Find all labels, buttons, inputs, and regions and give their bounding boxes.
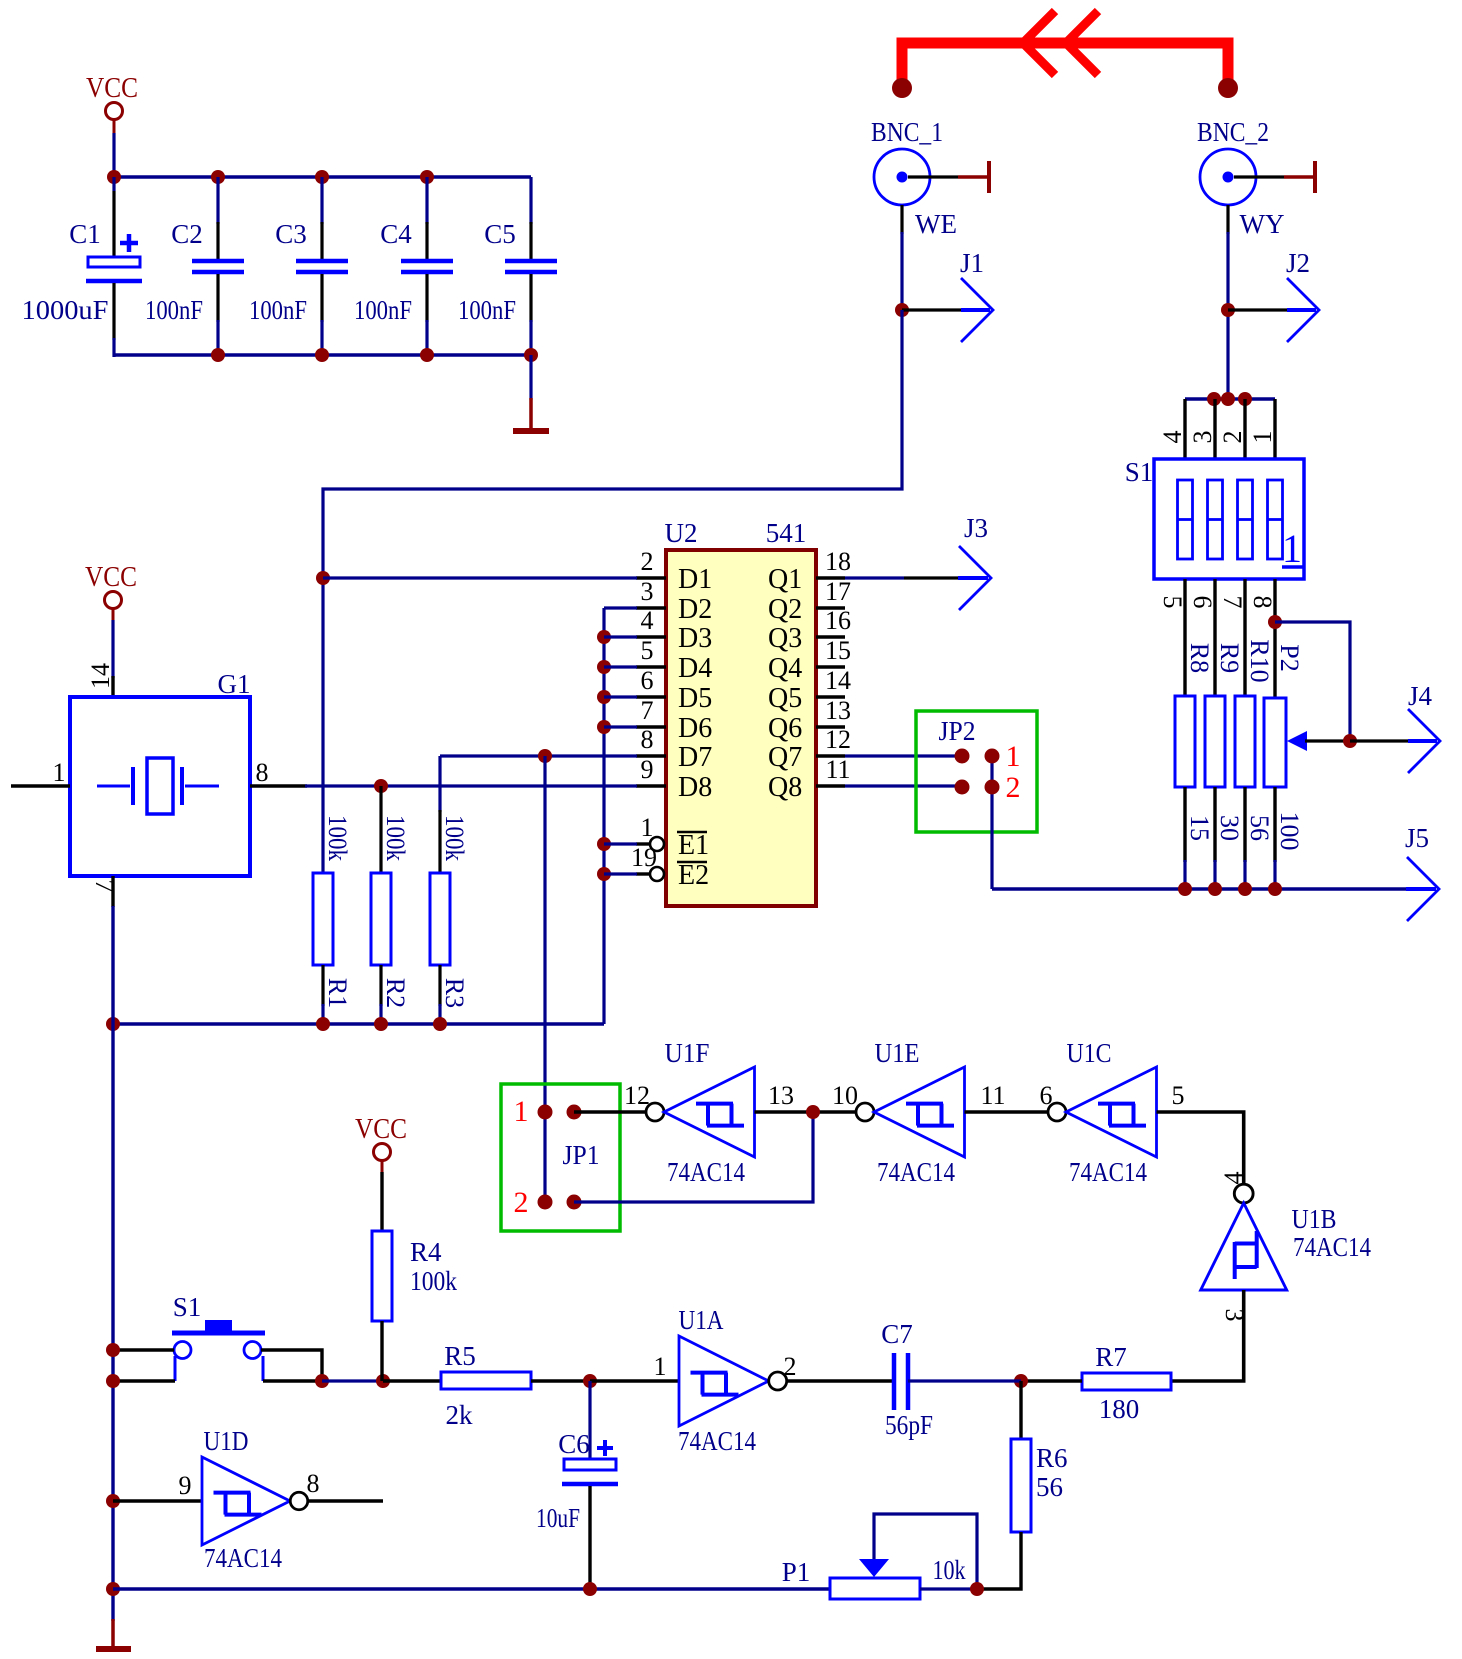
wire R3 bottom lead xyxy=(438,965,441,1024)
U2 pin 7 stub (D6) xyxy=(636,725,666,728)
pin name E1 with overline xyxy=(677,830,709,861)
wire U1C input (pin5) to U1B xyxy=(1157,1112,1244,1184)
svg-text:Q7: Q7 xyxy=(768,742,802,773)
svg-text:C3: C3 xyxy=(275,219,307,249)
BNC_1 shield terminal xyxy=(908,161,989,193)
wire resistor bottom x=1275 xyxy=(1273,787,1276,890)
wire C6 bottom lead xyxy=(588,1486,591,1589)
svg-text:P1: P1 xyxy=(782,1557,811,1587)
svg-text:BNC_2: BNC_2 xyxy=(1197,117,1269,147)
wire D5 net xyxy=(604,695,637,698)
wire U1F input (pin13) xyxy=(755,1110,857,1113)
resistor R1 xyxy=(313,873,333,965)
port J2 xyxy=(1221,248,1319,342)
wire U1E input (pin11) xyxy=(965,1110,1049,1113)
resistor R3 xyxy=(430,873,450,965)
junction dot wiper/J4 xyxy=(1343,734,1357,748)
svg-text:D2: D2 xyxy=(678,594,712,625)
wire R4 bottom lead xyxy=(380,1321,383,1381)
svg-text:5: 5 xyxy=(641,636,654,665)
svg-text:U1F: U1F xyxy=(665,1038,710,1068)
capacitor C1 xyxy=(86,257,142,281)
wire resistor bottom x=1215 xyxy=(1213,787,1216,890)
svg-text:U1D: U1D xyxy=(204,1426,249,1456)
svg-text:13: 13 xyxy=(825,696,851,725)
svg-text:C4: C4 xyxy=(380,219,412,249)
svg-text:8: 8 xyxy=(256,758,269,787)
svg-text:1: 1 xyxy=(1282,526,1302,571)
svg-text:74AC14: 74AC14 xyxy=(204,1543,282,1573)
wire E1 net xyxy=(604,842,637,845)
switch S1 element 3 xyxy=(1238,480,1253,559)
wire top VCC rail xyxy=(112,175,531,179)
wire D7 net xyxy=(440,754,637,757)
pushbutton S1 xyxy=(172,1320,265,1381)
svg-text:G1: G1 xyxy=(218,669,251,699)
wire D2 net xyxy=(604,606,637,609)
capacitor C3 xyxy=(296,261,348,272)
svg-text:7: 7 xyxy=(641,696,654,725)
wire resistor bottom x=1245 xyxy=(1243,787,1246,890)
junction dots GND riser xyxy=(597,630,611,881)
svg-text:R2: R2 xyxy=(381,978,410,1008)
wire C3 top lead xyxy=(320,177,323,259)
U2 pin 9 stub (D8) xyxy=(636,784,666,787)
switch S1 element 1 xyxy=(1178,480,1193,559)
svg-text:16: 16 xyxy=(825,606,851,635)
resistor R6 xyxy=(1011,1439,1031,1532)
wire R1 bottom lead xyxy=(321,965,324,1024)
junction dots at S1 left xyxy=(106,1343,120,1388)
svg-text:Q5: Q5 xyxy=(768,683,802,714)
svg-text:J3: J3 xyxy=(964,513,988,543)
svg-text:J4: J4 xyxy=(1408,681,1433,711)
svg-text:74AC14: 74AC14 xyxy=(1069,1157,1147,1187)
wire S1 bottom pin 5 xyxy=(1183,579,1186,697)
wire VCC to G1 pin14 xyxy=(111,620,114,697)
oscillator G1 body xyxy=(70,697,250,876)
svg-text:U1E: U1E xyxy=(875,1038,920,1068)
svg-text:10k: 10k xyxy=(933,1555,966,1585)
svg-text:U1C: U1C xyxy=(1067,1038,1112,1068)
wire left GND trunk xyxy=(111,906,114,1621)
svg-text:D3: D3 xyxy=(678,623,712,654)
U2 pin 15 stub (Q4) xyxy=(816,665,845,668)
wire R7 to C7 node xyxy=(1021,1379,1082,1382)
wire S1 upper-right xyxy=(261,1350,322,1381)
wire bottom GND rail xyxy=(113,1587,830,1590)
svg-text:10: 10 xyxy=(832,1081,858,1110)
svg-text:14: 14 xyxy=(86,663,115,689)
svg-text:R1: R1 xyxy=(323,978,352,1008)
P1 wiper arrow xyxy=(859,1559,889,1577)
svg-text:1: 1 xyxy=(1248,431,1277,444)
svg-text:WE: WE xyxy=(915,209,957,239)
svg-text:8: 8 xyxy=(641,725,654,754)
svg-text:C1: C1 xyxy=(69,219,101,249)
U2 pin 11 stub (Q8) xyxy=(816,784,845,787)
svg-text:D1: D1 xyxy=(678,564,712,595)
svg-text:11: 11 xyxy=(825,755,850,784)
U2 pin 2 stub (D1) xyxy=(636,576,666,579)
wire BNC_2 down xyxy=(1226,205,1229,400)
jumper JP1 box xyxy=(501,1084,620,1231)
wire C4 top lead xyxy=(425,177,428,259)
svg-text:R7: R7 xyxy=(1095,1342,1127,1372)
junction dot S1 right xyxy=(315,1374,329,1388)
switch S1 element 2 xyxy=(1208,480,1223,559)
svg-text:3: 3 xyxy=(1188,431,1217,444)
P1 wiper wire xyxy=(874,1514,977,1589)
wire C1 bottom lead xyxy=(112,283,115,357)
svg-text:1: 1 xyxy=(53,758,66,787)
svg-text:R4: R4 xyxy=(410,1237,442,1267)
svg-text:4: 4 xyxy=(1158,431,1187,444)
wire E2 net xyxy=(604,872,637,875)
BNC_2 shield terminal xyxy=(1234,161,1315,193)
resistor R5 xyxy=(441,1372,531,1389)
inverter U1C (74AC14) xyxy=(1048,1067,1157,1157)
wire C7 to node xyxy=(908,1379,1021,1382)
resistor R9 xyxy=(1205,696,1225,787)
wire S1 bottom pin 6 xyxy=(1213,579,1216,697)
red cable chevron arrow 1 xyxy=(1023,11,1055,75)
inverter U1E (74AC14) xyxy=(856,1067,965,1157)
U2 pin 12 stub (Q7) xyxy=(816,754,845,757)
svg-text:12: 12 xyxy=(825,725,851,754)
wire JP1-1 to U1F output xyxy=(574,1110,647,1113)
G1 pin 7 stub xyxy=(90,876,119,907)
connector BNC_1 xyxy=(871,117,943,205)
svg-text:8: 8 xyxy=(1248,596,1277,609)
U2 pin 4 stub (D3) xyxy=(636,635,666,638)
wire C5 top lead xyxy=(529,177,532,259)
svg-text:4: 4 xyxy=(641,606,654,635)
junction dot R5/C6/U1A xyxy=(583,1374,597,1388)
svg-text:1000uF: 1000uF xyxy=(22,295,109,325)
svg-text:7: 7 xyxy=(90,880,119,893)
svg-text:D4: D4 xyxy=(678,653,712,684)
wire C5 bottom lead xyxy=(529,274,532,357)
wire S1 lower-left xyxy=(113,1379,175,1382)
svg-text:3: 3 xyxy=(641,577,654,606)
svg-text:9: 9 xyxy=(179,1471,192,1500)
junction dots S1 top rail xyxy=(1207,392,1252,406)
svg-text:J2: J2 xyxy=(1286,248,1310,278)
svg-text:8: 8 xyxy=(307,1469,320,1498)
wire R3 top lead xyxy=(438,756,441,873)
svg-text:541: 541 xyxy=(766,518,807,548)
pin name E2 with overline xyxy=(677,860,709,891)
wire P1 right terminal xyxy=(920,1587,977,1590)
svg-text:E1: E1 xyxy=(678,830,709,861)
junction dots on bottom cap rail xyxy=(211,348,538,362)
U2 pin 3 stub (D2) xyxy=(636,606,666,609)
wire D6 net xyxy=(604,725,637,728)
svg-text:BNC_1: BNC_1 xyxy=(871,117,943,147)
wire R2 bottom lead xyxy=(379,965,382,1024)
junction dots J5 rail xyxy=(1178,882,1282,896)
port J1 xyxy=(895,248,993,342)
svg-text:1: 1 xyxy=(514,1095,529,1128)
inverter U1A (74AC14) xyxy=(679,1336,787,1426)
svg-text:WY: WY xyxy=(1240,209,1285,239)
wire U1A out to C7 xyxy=(787,1379,894,1382)
svg-text:74AC14: 74AC14 xyxy=(678,1426,756,1456)
svg-text:2: 2 xyxy=(1006,771,1021,804)
svg-text:U1B: U1B xyxy=(1292,1204,1337,1234)
junction dot C7/R7/R6 xyxy=(1014,1374,1028,1388)
inverter U1F (74AC14) xyxy=(646,1067,755,1157)
svg-text:15: 15 xyxy=(1185,815,1214,841)
svg-text:E2: E2 xyxy=(678,860,709,891)
wire to U1A input xyxy=(590,1379,680,1382)
svg-text:J5: J5 xyxy=(1405,823,1429,853)
JP2 wire 1-2 xyxy=(990,756,993,889)
svg-text:VCC: VCC xyxy=(85,562,137,593)
svg-text:100nF: 100nF xyxy=(354,295,412,325)
wire VCC to R4 xyxy=(380,1172,383,1231)
svg-text:VCC: VCC xyxy=(355,1114,407,1145)
svg-text:6: 6 xyxy=(641,666,654,695)
potentiometer P1 xyxy=(830,1578,920,1599)
wire S1 top pin 3 xyxy=(1213,399,1216,459)
junction dot JP1/D7 xyxy=(538,749,552,763)
connector BNC_2 xyxy=(1197,117,1269,205)
wire Q8 to JP2 xyxy=(845,784,962,787)
junction dots GND rail xyxy=(106,1017,447,1031)
svg-text:100k: 100k xyxy=(410,1266,457,1296)
svg-text:JP2: JP2 xyxy=(939,716,976,746)
U2 pin 6 stub (D5) xyxy=(636,695,666,698)
capacitor C2 xyxy=(192,261,244,272)
svg-text:74AC14: 74AC14 xyxy=(877,1157,955,1187)
junction dot P1/R6 xyxy=(970,1582,984,1596)
wire D1 net to D1 pin xyxy=(323,576,637,579)
capacitor C5 xyxy=(505,261,557,272)
wire JP1-2 feedback xyxy=(574,1112,813,1202)
svg-text:R5: R5 xyxy=(444,1341,476,1371)
wire R6 bottom lead xyxy=(977,1532,1021,1589)
U2 pin 13 stub (Q6) xyxy=(816,725,845,728)
U2 pin 19 stub (E2) xyxy=(636,867,664,881)
svg-text:D5: D5 xyxy=(678,683,712,714)
wire C6 top lead xyxy=(588,1381,591,1459)
svg-text:74AC14: 74AC14 xyxy=(667,1157,745,1187)
wire BNC_1 down xyxy=(900,205,903,310)
svg-text:R10: R10 xyxy=(1245,639,1274,682)
svg-text:R6: R6 xyxy=(1036,1443,1068,1473)
wire D3 net xyxy=(604,635,637,638)
svg-text:C5: C5 xyxy=(484,219,516,249)
wire R4 node to R5 xyxy=(383,1379,441,1382)
svg-text:2k: 2k xyxy=(446,1400,474,1430)
power symbol VCC (R4) xyxy=(355,1114,407,1173)
switch S1 element 4 xyxy=(1268,480,1283,559)
JP2 pads xyxy=(955,749,1000,795)
wire pin8 net to wiper xyxy=(1275,622,1350,741)
port J4 xyxy=(1350,681,1440,773)
wire Q1 to J3 xyxy=(845,576,988,579)
wire S1 top rail xyxy=(1185,397,1275,400)
port J3 xyxy=(959,513,991,610)
svg-text:19: 19 xyxy=(631,843,657,872)
svg-text:30: 30 xyxy=(1215,815,1244,841)
svg-text:S1: S1 xyxy=(1125,457,1154,487)
wire S1 upper-left xyxy=(113,1348,174,1351)
svg-text:11: 11 xyxy=(980,1081,1005,1110)
wire G1 pin8 to D8 xyxy=(305,784,637,787)
svg-text:R8: R8 xyxy=(1185,643,1214,673)
wire D4 net xyxy=(604,665,637,668)
svg-text:6: 6 xyxy=(1188,596,1217,609)
wire bottom cap rail xyxy=(114,353,531,357)
svg-text:1: 1 xyxy=(654,1352,667,1381)
svg-text:D8: D8 xyxy=(678,772,712,803)
capacitor C4 xyxy=(401,261,453,272)
svg-text:74AC14: 74AC14 xyxy=(1293,1232,1371,1262)
inverter U1B (74AC14) xyxy=(1201,1184,1287,1290)
svg-text:100k: 100k xyxy=(440,815,469,861)
svg-text:56: 56 xyxy=(1245,815,1274,841)
wire BNC_1 net to D1 column xyxy=(323,310,902,873)
svg-text:13: 13 xyxy=(768,1081,794,1110)
wire VCC to top rail xyxy=(112,133,115,178)
svg-text:100nF: 100nF xyxy=(145,295,203,325)
svg-text:9: 9 xyxy=(641,755,654,784)
svg-text:P2: P2 xyxy=(1275,644,1304,671)
G1 pin 8 stub xyxy=(250,758,307,787)
wire S1 top pin 4 xyxy=(1183,399,1186,459)
svg-text:R9: R9 xyxy=(1215,643,1244,673)
red cable between BNC_1 and BNC_2 xyxy=(902,43,1228,88)
wire U1D input xyxy=(113,1499,203,1502)
wire U1B input to R7 xyxy=(1171,1290,1244,1381)
svg-text:R3: R3 xyxy=(440,978,469,1008)
svg-text:4: 4 xyxy=(1219,1172,1248,1185)
wire GND riser to U2 xyxy=(602,608,605,1024)
svg-text:U1A: U1A xyxy=(679,1305,724,1335)
junction dot C6 bottom xyxy=(583,1582,597,1596)
U2 pin 14 stub (Q5) xyxy=(816,695,845,698)
ground symbol (bottom left) xyxy=(96,1619,131,1649)
svg-text:2: 2 xyxy=(1218,431,1247,444)
U2 pin 17 stub (Q2) xyxy=(816,606,845,609)
svg-text:Q3: Q3 xyxy=(768,623,802,654)
resistor R4 xyxy=(372,1231,392,1321)
svg-text:56: 56 xyxy=(1036,1472,1063,1502)
svg-text:12: 12 xyxy=(624,1081,650,1110)
junction dot feedback xyxy=(806,1105,820,1119)
capacitor C6 plus sign xyxy=(597,1440,613,1456)
resistor R7 xyxy=(1082,1373,1171,1390)
red cable end dots xyxy=(892,78,1238,98)
U2 pin 1 stub (E1) xyxy=(636,837,664,851)
svg-text:S1: S1 xyxy=(173,1292,202,1322)
P2 wiper arrow xyxy=(1287,731,1350,751)
svg-text:14: 14 xyxy=(825,666,851,695)
svg-text:D6: D6 xyxy=(678,713,712,744)
svg-text:U2: U2 xyxy=(665,518,698,548)
svg-text:C7: C7 xyxy=(881,1319,913,1349)
capacitor C6 xyxy=(562,1459,618,1484)
wire S1 bottom pin 7 xyxy=(1243,579,1246,697)
resistor R10 xyxy=(1235,696,1255,787)
potentiometer P2 xyxy=(1264,698,1286,787)
junction dot bottom rail left xyxy=(106,1582,120,1596)
wire J5 rail xyxy=(992,887,1406,890)
wire S1 pin8 to P2 xyxy=(1273,579,1276,699)
svg-text:100k: 100k xyxy=(381,815,410,861)
svg-text:100nF: 100nF xyxy=(458,295,516,325)
wire GND rail (mid) xyxy=(113,1022,604,1025)
IC U2 body xyxy=(666,550,816,906)
wire C2 top lead xyxy=(216,177,219,259)
port J5 xyxy=(1405,823,1439,921)
junction dot D1 net xyxy=(316,571,330,585)
resistor R2 xyxy=(371,873,391,965)
svg-text:15: 15 xyxy=(825,636,851,665)
U2 pin 5 stub (D4) xyxy=(636,665,666,668)
ground symbol (below C5) xyxy=(513,355,549,431)
svg-text:J1: J1 xyxy=(960,248,984,278)
power symbol VCC (top-left) xyxy=(86,73,138,133)
capacitor C1 plus sign xyxy=(120,234,138,252)
power symbol VCC (G1) xyxy=(85,562,137,621)
svg-text:100: 100 xyxy=(1275,812,1304,851)
resistor R8 xyxy=(1175,696,1195,787)
JP1 pads xyxy=(538,1105,582,1210)
svg-text:10uF: 10uF xyxy=(536,1503,580,1533)
svg-text:180: 180 xyxy=(1099,1394,1140,1424)
svg-text:D7: D7 xyxy=(678,742,712,773)
svg-text:17: 17 xyxy=(825,577,851,606)
wire Q7 to JP2 xyxy=(845,754,962,757)
wire resistor bottom x=1185 xyxy=(1183,787,1186,890)
wire S1 to R4 node xyxy=(322,1379,383,1382)
wire C3 bottom lead xyxy=(320,274,323,357)
wire S1 top pin 1 xyxy=(1273,399,1276,459)
switch S1 (DIP-4) body xyxy=(1154,459,1304,579)
wire C4 bottom lead xyxy=(425,274,428,357)
svg-text:5: 5 xyxy=(1158,596,1187,609)
wire S1 lower-right xyxy=(263,1379,322,1382)
svg-text:18: 18 xyxy=(825,547,851,576)
jumper JP2 box xyxy=(916,711,1037,832)
red cable chevron arrow 2 xyxy=(1066,11,1098,75)
svg-text:56pF: 56pF xyxy=(885,1410,933,1440)
svg-text:100k: 100k xyxy=(323,815,352,861)
svg-text:JP1: JP1 xyxy=(563,1140,600,1170)
junction dot pin8/wiper net xyxy=(1268,615,1282,629)
wire R5 to C6 node xyxy=(531,1379,590,1382)
svg-text:100nF: 100nF xyxy=(249,295,307,325)
svg-text:2: 2 xyxy=(641,547,654,576)
svg-text:Q2: Q2 xyxy=(768,594,802,625)
wire R2 top lead xyxy=(379,786,382,873)
wire C2 bottom lead xyxy=(216,274,219,357)
crystal symbol inside G1 xyxy=(97,758,219,814)
svg-text:C2: C2 xyxy=(171,219,203,249)
wire node to R6 xyxy=(1019,1381,1022,1439)
svg-text:2: 2 xyxy=(514,1186,529,1219)
U2 pin 18 stub (Q1) xyxy=(816,576,845,579)
junction dot R4 bottom xyxy=(376,1374,390,1388)
svg-text:C6: C6 xyxy=(558,1429,590,1459)
wire C1 top lead xyxy=(112,177,115,257)
junction dot R2 top xyxy=(374,779,388,793)
junction dots on top rail xyxy=(107,170,434,184)
